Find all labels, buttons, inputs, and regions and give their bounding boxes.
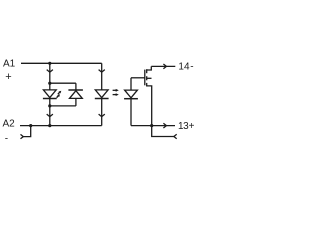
wire photodiode branch lower <box>130 99 132 126</box>
wire parallel box top connector <box>50 82 76 84</box>
contact arrow on 13 jumper stub <box>174 134 177 138</box>
wire diode D2 bottom stub <box>75 98 77 106</box>
LED D1 indicator triangle <box>43 90 56 98</box>
current arrow on branch 3 lower <box>99 114 105 117</box>
current arrow on branch 3 upper <box>99 70 105 73</box>
LED D1 cathode bar <box>43 98 57 100</box>
wire branch 1 lower segment <box>49 99 51 126</box>
svg-text:13: 13 <box>178 121 189 132</box>
MOSFET Q1 gate bar <box>144 70 146 86</box>
MOSFET Q1 channel dash middle <box>146 76 148 80</box>
svg-text:A2: A2 <box>3 118 16 129</box>
diode D2 reverse protection cathode bar <box>68 89 83 91</box>
wire 13 jumper contact stub <box>152 126 175 137</box>
LED D3 cathode bar <box>95 98 109 100</box>
optocoupler light arrow b <box>113 94 117 96</box>
svg-text:+: + <box>5 71 11 83</box>
wire terminal 14 rail <box>151 65 175 67</box>
svg-text:14: 14 <box>178 62 190 73</box>
LED D3 optocoupler emitter triangle <box>95 90 108 98</box>
photodiode D4 cathode bar <box>124 98 138 100</box>
current arrow on branch 1 lower <box>47 114 53 117</box>
photodiode D4 triangle <box>125 90 138 98</box>
node junction on A2 rail at branch 1 <box>48 124 51 127</box>
MOSFET Q1 drain lead <box>147 66 152 70</box>
node junction on 13 rail at source <box>150 124 153 127</box>
contact arrow on 13 rail <box>163 123 166 128</box>
node junction box bottom left <box>48 104 51 107</box>
MOSFET Q1 source lead <box>147 86 152 126</box>
svg-text:-: - <box>190 62 193 73</box>
svg-text:-: - <box>5 134 8 145</box>
wire terminal 13 rail <box>131 125 175 127</box>
wire gate lead from photodiode to MOSFET <box>131 77 145 79</box>
LED D1 emission arrow b <box>57 96 59 98</box>
wire photodiode branch upper <box>130 78 132 90</box>
node junction on A2 rail at jumper stub <box>29 124 32 127</box>
wire parallel box bottom connector <box>50 105 76 107</box>
wire diode D2 top stub <box>75 83 77 90</box>
wire A1 top rail <box>21 62 102 64</box>
diode D2 reverse protection triangle <box>70 91 83 99</box>
wire A2 jumper contact stub <box>23 126 31 137</box>
node junction box top left <box>48 82 51 85</box>
wire branch 3 lower segment <box>101 99 103 126</box>
LED D1 emission arrow a <box>58 92 60 94</box>
optocoupler light arrow a <box>113 89 117 91</box>
MOSFET Q1 channel dash bottom <box>146 83 148 87</box>
wire branch 1 upper segment <box>49 63 51 90</box>
svg-text:+: + <box>189 121 195 132</box>
wire A2 bottom rail <box>20 125 102 127</box>
MOSFET Q1 body stub <box>147 77 152 79</box>
node junction on A1 rail at branch 1 <box>48 62 51 65</box>
wire branch 3 upper segment <box>101 63 103 90</box>
contact arrow on 14 rail <box>163 64 166 69</box>
MOSFET Q1 channel dash top <box>146 69 148 73</box>
svg-text:A1: A1 <box>3 59 16 70</box>
current arrow on branch 1 upper <box>47 70 53 73</box>
contact arrow on A2 jumper stub <box>21 134 24 138</box>
